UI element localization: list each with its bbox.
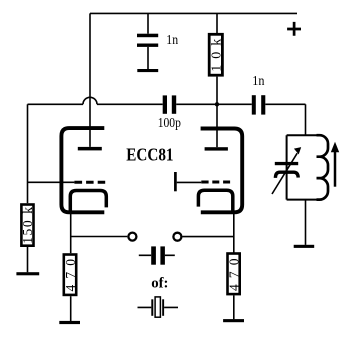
svg-text:470: 470 xyxy=(63,259,78,292)
capacitor C1 1n top lead xyxy=(147,13,149,33)
wire cathode 1 lead xyxy=(70,214,72,253)
resistor R4 470 body xyxy=(228,254,240,295)
wire tank bottom lead xyxy=(305,200,307,245)
supply + terminal xyxy=(287,22,301,36)
wire C1 to ground xyxy=(147,47,149,69)
grid (left triode) dashes xyxy=(74,181,105,184)
tank frame left with variable capacitor inline xyxy=(286,135,288,199)
ground (R3) xyxy=(59,321,80,324)
resistor R1 10k body xyxy=(209,34,222,75)
capacitor C4 plates xyxy=(151,246,165,264)
wire R2 bottom lead xyxy=(27,247,29,272)
terminal circle left xyxy=(128,233,136,241)
wire branch to left terminal xyxy=(71,236,128,238)
ground (R2) xyxy=(16,272,39,275)
svg-text:1n: 1n xyxy=(252,73,264,88)
wire main horizontal right section xyxy=(265,103,305,105)
inductor L1 coil xyxy=(317,135,329,199)
wire left vertical grid feed xyxy=(27,104,29,203)
svg-text:100p: 100p xyxy=(158,116,181,131)
wire top supply rail xyxy=(90,12,297,14)
resistor R1 10k top lead xyxy=(216,13,218,33)
wire R1 bottom lead to anode 2 xyxy=(216,77,218,148)
cathode (left triode) xyxy=(70,191,106,213)
tank frame bottom xyxy=(287,199,317,201)
cathode (right triode) xyxy=(198,190,232,212)
capacitor C2 100p plates xyxy=(163,95,177,113)
resistor R3 470 body xyxy=(64,255,76,295)
svg-text:of:: of: xyxy=(151,276,168,292)
wire grid 2 lead xyxy=(177,181,202,183)
resistor R2 150k body xyxy=(21,205,33,246)
crystal X1 leads xyxy=(138,306,179,308)
tube V1 left triode envelope xyxy=(61,128,104,212)
grid (right triode) dashes xyxy=(201,181,230,184)
wire main horizontal middle section xyxy=(176,103,252,105)
ground (C1) xyxy=(137,69,158,72)
svg-text:1n: 1n xyxy=(166,32,178,47)
wire cathode 2 lead xyxy=(233,214,235,254)
inductor coupling arrow shaft xyxy=(334,152,337,187)
tank frame top xyxy=(287,134,317,136)
capacitor C3 1n plates xyxy=(252,95,266,114)
variable capacitor C5 arrow shaft xyxy=(272,153,297,194)
variable capacitor C5 arrow head xyxy=(294,147,301,154)
anode plate (right triode) xyxy=(205,147,228,150)
variable capacitor C5 curved plate xyxy=(275,172,298,178)
crystal X1 body xyxy=(155,297,160,317)
tube V1 right triode envelope xyxy=(201,129,243,213)
inductor coupling arrow head xyxy=(331,142,339,152)
variable capacitor C5 top plate xyxy=(275,162,298,165)
ground (R4) xyxy=(223,319,244,322)
wire branch from right terminal xyxy=(183,236,235,238)
svg-text:ECC81: ECC81 xyxy=(126,145,173,165)
grid 2 terminal bar xyxy=(174,172,177,191)
capacitor C1 1n plates xyxy=(137,34,158,47)
wire left vertical anode 1 feed xyxy=(89,13,91,147)
wire tank top lead xyxy=(305,104,307,135)
node junction dot xyxy=(215,102,219,106)
wire R4 bottom lead xyxy=(233,295,235,319)
svg-text:150 k: 150 k xyxy=(20,207,35,244)
wire grid 1 lead xyxy=(28,181,75,183)
svg-text:470: 470 xyxy=(226,258,241,291)
wire hop over anode feed xyxy=(83,97,97,104)
capacitor C4 coupling leads xyxy=(139,254,175,256)
wire main horizontal left section xyxy=(28,103,163,105)
anode plate (left triode) xyxy=(78,147,102,151)
wire R3 bottom lead xyxy=(70,296,72,321)
crystal X1 plates xyxy=(151,299,164,316)
ground (tank) xyxy=(294,245,315,248)
svg-text:10k: 10k xyxy=(209,39,224,72)
terminal circle right xyxy=(173,233,181,241)
